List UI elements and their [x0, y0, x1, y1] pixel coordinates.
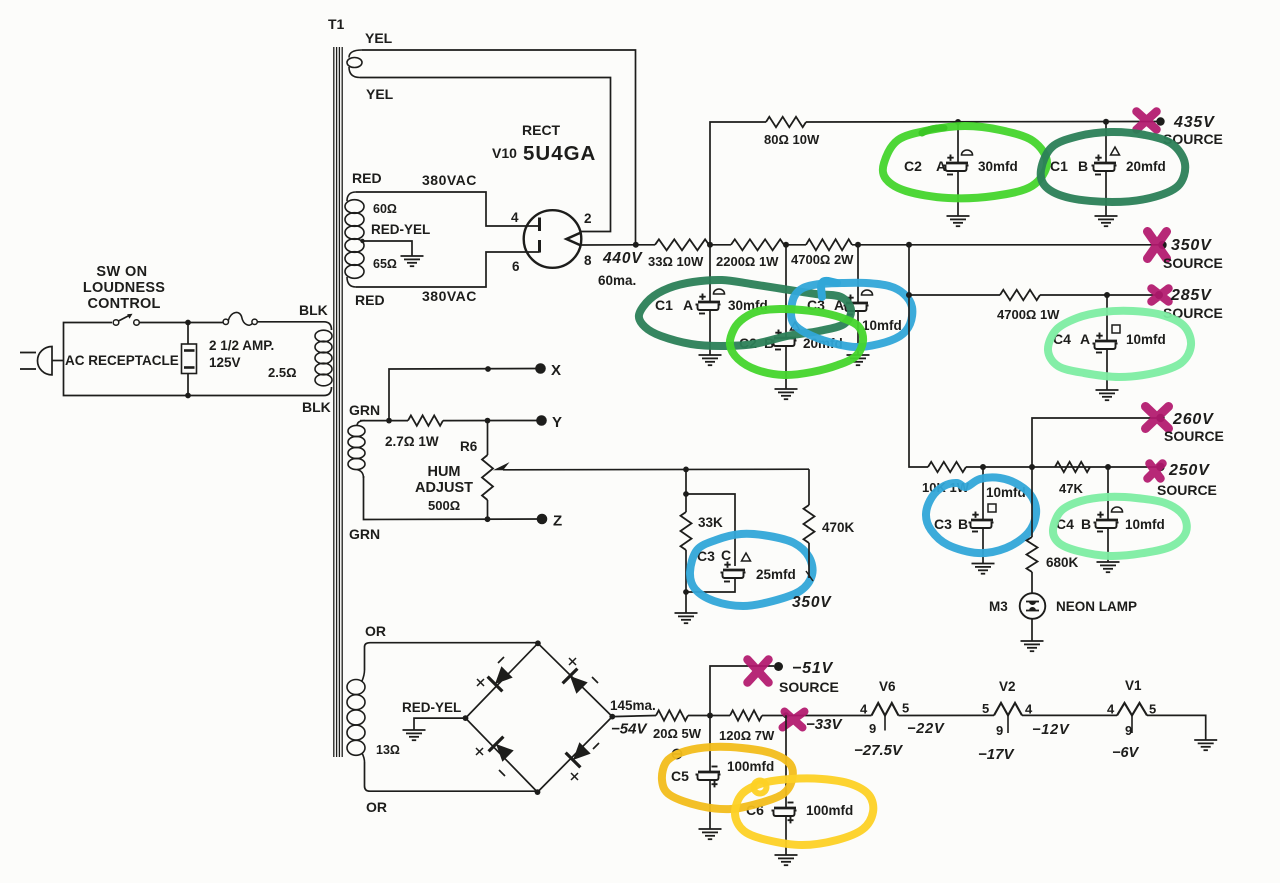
- ground below C2B: [775, 389, 798, 399]
- node: GRN junction: [386, 418, 392, 424]
- node: C4A junction: [1104, 292, 1110, 298]
- svg-text:C2: C2: [904, 158, 922, 174]
- resistor 33K: [681, 512, 692, 550]
- node: X line junction: [485, 366, 491, 372]
- ground below C5: [699, 829, 722, 839]
- node: C4B junction: [1105, 464, 1111, 470]
- tube heater V1: [1117, 703, 1147, 716]
- annotation bright-green circle around C2B: [730, 309, 863, 375]
- annotation yellow circle around C6: [735, 778, 873, 845]
- node: receptacle top junction: [185, 320, 191, 326]
- winding YEL (rectifier filament): [349, 50, 362, 58]
- svg-text:M3: M3: [989, 599, 1008, 614]
- 260V source terminal: [1156, 414, 1164, 422]
- svg-text:4: 4: [511, 210, 519, 225]
- svg-text:RED: RED: [355, 292, 385, 308]
- svg-text:−27.5V: −27.5V: [854, 742, 904, 759]
- svg-text:RECT: RECT: [522, 122, 561, 138]
- svg-text:LOUDNESS: LOUDNESS: [83, 280, 165, 296]
- svg-text:C1: C1: [655, 297, 673, 313]
- node: C6 junction: [783, 712, 789, 718]
- svg-text:30mfd: 30mfd: [978, 159, 1018, 174]
- node: bridge bottom vertex: [535, 789, 541, 795]
- capacitor C3 section A 10mfd: [857, 245, 859, 303]
- ground below C4B: [1097, 562, 1120, 572]
- capacitor C4 section B 10mfd: [1107, 467, 1109, 520]
- svg-text:33K: 33K: [698, 515, 723, 530]
- ground below 33K: [675, 613, 698, 623]
- svg-text:A: A: [936, 158, 946, 174]
- node: rail junction 285V branch: [906, 242, 912, 248]
- diode bridge bottom-right: [573, 742, 591, 760]
- tube rectifier V10 5U4GA: [524, 210, 582, 268]
- svg-text:5: 5: [902, 701, 909, 716]
- diode bridge top-left: [495, 666, 513, 684]
- svg-text:OR: OR: [366, 799, 387, 815]
- annotation mint circle around C4A: [1048, 311, 1191, 377]
- wire: tube pin 8 to 440V node: [581, 244, 637, 246]
- annotation mint circle around C4B: [1053, 497, 1187, 556]
- svg-text:4: 4: [1107, 702, 1115, 717]
- svg-text:4700Ω 1W: 4700Ω 1W: [997, 307, 1060, 322]
- svg-text:440V: 440V: [602, 250, 643, 267]
- svg-text:60ma.: 60ma.: [598, 273, 636, 288]
- node: C2A junction: [955, 119, 961, 125]
- wire: switch to junction: [139, 322, 223, 324]
- svg-text:500Ω: 500Ω: [428, 498, 460, 513]
- svg-text:SOURCE: SOURCE: [1157, 482, 1217, 498]
- svg-text:9: 9: [1125, 723, 1132, 738]
- wire: YEL top to 440V node: [362, 50, 636, 245]
- ground at bridge tap: [403, 730, 426, 740]
- node: bridge top vertex: [535, 640, 541, 646]
- svg-text:−54V: −54V: [611, 721, 648, 738]
- capacitor C3 section B 10mfd: [982, 467, 984, 520]
- svg-text:145ma.: 145ma.: [610, 698, 656, 713]
- wire: rail 786-806: [786, 244, 806, 246]
- wire: pot bottom to Z: [487, 500, 489, 520]
- svg-text:CONTROL: CONTROL: [87, 296, 160, 312]
- svg-text:C1: C1: [1050, 158, 1068, 174]
- svg-text:10mfd: 10mfd: [1125, 517, 1165, 532]
- svg-text:−51V: −51V: [792, 660, 834, 677]
- svg-text:RED-YEL: RED-YEL: [402, 700, 461, 715]
- annotation blue circle around C3C: [690, 534, 813, 606]
- wire: pot top lead: [487, 421, 489, 455]
- wire: down to 33K: [685, 469, 687, 512]
- resistor 10K 1W: [928, 462, 966, 472]
- svg-text:285V: 285V: [1170, 287, 1212, 304]
- svg-text:YEL: YEL: [366, 86, 394, 102]
- svg-text:−22V: −22V: [907, 721, 945, 737]
- annotation blue circle around C3A: [791, 283, 912, 347]
- ground below C2A: [947, 216, 970, 226]
- svg-text:ADJUST: ADJUST: [415, 480, 473, 496]
- resistor 470K: [808, 469, 810, 505]
- svg-text:C3: C3: [934, 516, 952, 532]
- wire: GRN bottom to Z line: [364, 476, 543, 520]
- resistor 680K: [1027, 537, 1038, 572]
- tube heater V2: [994, 703, 1022, 716]
- svg-text:2.7Ω 1W: 2.7Ω 1W: [385, 434, 439, 449]
- node: 33K/C3C top junction: [683, 491, 689, 497]
- wire: bridge left tap RED-YEL: [414, 718, 466, 730]
- 435V source terminal: [1156, 117, 1164, 125]
- bridge rectifier diamond: [466, 643, 613, 792]
- minus-terminal mark for C5: [672, 749, 681, 758]
- wire: 680K branch: [1031, 467, 1033, 537]
- svg-text:20mfd: 20mfd: [1126, 159, 1166, 174]
- ground below C4A: [1096, 390, 1119, 400]
- wire: rail to 350V source: [852, 244, 1162, 246]
- svg-text:BLK: BLK: [299, 302, 328, 318]
- svg-text:B: B: [1081, 516, 1091, 532]
- svg-text:250V: 250V: [1168, 462, 1210, 479]
- node: 260V/680K junction: [1029, 464, 1035, 470]
- svg-text:B: B: [1078, 158, 1088, 174]
- wiper arrow of R6: [493, 462, 510, 470]
- svg-text:−6V: −6V: [1112, 745, 1140, 761]
- node: C1B junction: [1103, 119, 1109, 125]
- annotation bright-green circle around C2A: [883, 126, 1047, 198]
- wire: 285V row right: [1040, 294, 1159, 296]
- capacitor C4 section A 10mfd: [1106, 295, 1108, 341]
- node: receptacle bottom junction: [185, 393, 191, 399]
- svg-text:V1: V1: [1125, 678, 1142, 693]
- svg-text:A: A: [1080, 331, 1090, 347]
- svg-text:AC RECEPTACLE: AC RECEPTACLE: [65, 353, 179, 368]
- AC plug: [38, 347, 53, 375]
- svg-text:125V: 125V: [209, 355, 241, 370]
- node: bridge left vertex: [463, 715, 469, 721]
- wire: B+ rail left: [636, 244, 655, 246]
- svg-text:2200Ω 1W: 2200Ω 1W: [716, 254, 779, 269]
- resistor 4700 ohm 1W: [1000, 290, 1040, 300]
- svg-text:T1: T1: [328, 16, 345, 32]
- diode bridge bottom-left: [496, 744, 514, 762]
- wire: rail 710-731: [710, 244, 731, 246]
- node: rail junction C1A/80ohm riser: [707, 242, 713, 248]
- svg-text:5U4GA: 5U4GA: [523, 142, 596, 165]
- resistor 20 ohm 5W: [656, 710, 688, 720]
- svg-text:C5: C5: [671, 768, 689, 784]
- resistor 33 ohm 10W: [655, 239, 709, 250]
- node: Z junction: [485, 516, 491, 522]
- svg-text:2.5Ω: 2.5Ω: [268, 365, 297, 380]
- capacitor C5 100mfd: [709, 716, 711, 773]
- svg-text:X: X: [551, 362, 561, 379]
- ground below neon lamp: [1021, 641, 1044, 651]
- winding RED high-voltage secondary: [345, 200, 364, 279]
- svg-text:65Ω: 65Ω: [373, 257, 397, 271]
- resistor 80 ohm 10W: [766, 117, 806, 127]
- node: 440V rectifier output: [633, 242, 639, 248]
- svg-text:OR: OR: [365, 623, 386, 639]
- svg-text:HUM: HUM: [427, 464, 460, 480]
- svg-text:380VAC: 380VAC: [422, 288, 477, 304]
- wire: fuse to primary: [257, 322, 331, 330]
- svg-text:Y: Y: [552, 414, 562, 431]
- node: C5 junction: [707, 713, 713, 719]
- node: rail junction C2B: [783, 242, 789, 248]
- ground at heater string end: [1194, 740, 1217, 750]
- wire: RED bottom 380VAC: [356, 252, 540, 287]
- svg-text:33Ω 10W: 33Ω 10W: [648, 254, 704, 269]
- node: 285V row start: [906, 292, 912, 298]
- wire: receptacle branch: [187, 323, 189, 345]
- wire: bridge output to 20 ohm: [612, 716, 656, 717]
- svg-text:YEL: YEL: [365, 30, 393, 46]
- svg-text:RED: RED: [352, 170, 382, 186]
- terminal X: [535, 363, 546, 374]
- terminal Z: [537, 514, 548, 525]
- svg-text:2: 2: [584, 211, 592, 226]
- svg-text:2 1/2 AMP.: 2 1/2 AMP.: [209, 338, 274, 353]
- -51V terminal dot: [774, 662, 783, 671]
- capacitor C1 section B 20mfd: [1105, 122, 1107, 163]
- wire: RED top 380VAC: [356, 192, 540, 226]
- svg-text:4700Ω 2W: 4700Ω 2W: [791, 252, 854, 267]
- svg-text:10mfd: 10mfd: [862, 318, 902, 333]
- terminal Y: [536, 415, 547, 426]
- node: wiper-33K junction: [683, 467, 689, 473]
- svg-text:−17V: −17V: [978, 746, 1015, 763]
- svg-text:GRN: GRN: [349, 402, 380, 418]
- svg-text:47K: 47K: [1059, 481, 1083, 496]
- svg-text:100mfd: 100mfd: [727, 759, 774, 774]
- wire: V1 to ground: [1147, 715, 1206, 740]
- svg-text:RED-YEL: RED-YEL: [371, 222, 430, 237]
- annotation dark-green circle around C1A: [639, 280, 851, 346]
- wire: V6 to V2: [899, 714, 995, 716]
- node: Y line junction: [485, 418, 491, 424]
- svg-text:13Ω: 13Ω: [376, 743, 400, 757]
- svg-text:Z: Z: [553, 513, 562, 530]
- capacitor C3 section C 25mfd: [721, 562, 746, 582]
- svg-text:6: 6: [512, 259, 520, 274]
- interlock receptacle box: [182, 344, 197, 374]
- capacitor C1 section A 30mfd: [709, 245, 711, 302]
- svg-text:350V: 350V: [792, 594, 832, 611]
- wire: C3C top branch: [686, 494, 735, 566]
- svg-text:V2: V2: [999, 679, 1016, 694]
- svg-text:60Ω: 60Ω: [373, 202, 397, 216]
- wire: R6 wiper to divider: [503, 468, 809, 471]
- wire: 260V branch: [1032, 418, 1160, 467]
- node: 33K/C3C bottom junction: [683, 589, 689, 595]
- node: bridge right vertex: [609, 714, 615, 720]
- svg-text:4: 4: [860, 702, 868, 717]
- annotation blue circle around C3B: [926, 477, 1036, 553]
- svg-text:470K: 470K: [822, 520, 855, 535]
- svg-text:4: 4: [1025, 702, 1033, 717]
- capacitor C6 100mfd: [785, 715, 787, 808]
- svg-text:260V: 260V: [1172, 411, 1214, 428]
- capacitor C2 section A 30mfd: [957, 122, 959, 163]
- svg-text:NEON LAMP: NEON LAMP: [1056, 599, 1137, 614]
- svg-text:SOURCE: SOURCE: [1164, 428, 1224, 444]
- wire: 250V row: [966, 466, 1159, 468]
- wire: riser to X line: [389, 369, 540, 421]
- wire: OR bottom to bridge: [365, 762, 538, 791]
- wire: 285V row left: [909, 294, 1000, 296]
- resistor 2200 ohm 1W: [731, 239, 784, 250]
- ground below C1A: [699, 355, 722, 365]
- capacitor C2 section B 20mfd: [785, 245, 787, 338]
- -51V source branch: [710, 666, 774, 716]
- svg-text:B: B: [958, 516, 968, 532]
- svg-text:5: 5: [982, 701, 989, 716]
- wire: GRN top to X/Y network: [360, 420, 408, 422]
- 285V source terminal: [1155, 291, 1163, 299]
- svg-text:350V: 350V: [1171, 237, 1212, 254]
- winding GRN 6.3V heater: [348, 425, 365, 469]
- svg-text:10mfd: 10mfd: [1126, 332, 1166, 347]
- svg-text:GRN: GRN: [349, 526, 380, 542]
- tube heater V6: [872, 703, 899, 716]
- wire: 680K to lamp: [1031, 572, 1033, 593]
- 250V source terminal: [1156, 463, 1164, 471]
- wire: AC loop left/top/bottom: [64, 323, 113, 361]
- svg-text:9: 9: [869, 721, 876, 736]
- svg-text:−33V: −33V: [806, 716, 843, 733]
- ground below C3A: [847, 355, 870, 365]
- wire: 470K to 350V: [808, 543, 810, 578]
- svg-text:V6: V6: [879, 679, 896, 694]
- wire: rail 688-730: [688, 715, 730, 717]
- resistor 120 ohm 7W: [730, 710, 762, 720]
- svg-text:SOURCE: SOURCE: [779, 679, 839, 695]
- svg-text:−12V: −12V: [1032, 722, 1070, 738]
- 350V source terminal: [1158, 241, 1166, 249]
- ground at HV center tap: [401, 256, 424, 266]
- resistor 4700 ohm 2W: [806, 239, 852, 250]
- wire: bottom AC to primary: [186, 387, 332, 396]
- wire: riser to 250V row: [909, 295, 928, 467]
- wire: center tap to ground: [360, 239, 364, 243]
- neon lamp M3: [1020, 593, 1046, 619]
- potentiometer R6 hum adjust 500 ohm: [482, 455, 493, 500]
- fuse 2 1/2 amp: [223, 319, 228, 324]
- svg-text:100mfd: 100mfd: [806, 803, 853, 818]
- svg-text:680K: 680K: [1046, 555, 1079, 570]
- svg-text:SOURCE: SOURCE: [1163, 255, 1223, 271]
- svg-text:380VAC: 380VAC: [422, 172, 477, 188]
- svg-text:5: 5: [1149, 702, 1156, 717]
- diode bridge top-right: [570, 676, 588, 694]
- svg-text:C: C: [721, 547, 731, 563]
- svg-text:V10: V10: [492, 145, 517, 161]
- svg-text:80Ω 10W: 80Ω 10W: [764, 132, 820, 147]
- wire: OR top to bridge: [365, 643, 539, 670]
- resistor 2.7 ohm 1W: [408, 415, 443, 425]
- ground below C1B: [1095, 216, 1118, 226]
- svg-text:A: A: [683, 297, 693, 313]
- svg-text:120Ω 7W: 120Ω 7W: [719, 728, 775, 743]
- wire: V2 to V1: [1022, 714, 1117, 716]
- wire: plug to AC loop: [52, 360, 64, 362]
- svg-text:435V: 435V: [1173, 114, 1215, 131]
- winding OR bias secondary: [347, 680, 365, 756]
- wire: lamp to ground: [1031, 619, 1033, 641]
- wire: 435V row: [806, 121, 1160, 124]
- wire: C3C bottom: [686, 578, 735, 592]
- -33V x mark: [783, 712, 805, 728]
- switch SW on loudness control: [113, 320, 119, 326]
- wire: riser 350V rail to 285V row: [908, 245, 910, 295]
- svg-text:8: 8: [584, 253, 592, 268]
- wire: rail 762-871: [762, 715, 872, 717]
- wire: 33K to bottom junction: [685, 550, 687, 613]
- node: C3B junction: [980, 464, 986, 470]
- svg-text:BLK: BLK: [302, 399, 331, 415]
- winding BLK primary: [315, 330, 332, 386]
- node: rail junction C3A: [855, 242, 861, 248]
- svg-text:25mfd: 25mfd: [756, 567, 796, 582]
- svg-text:SW ON: SW ON: [96, 264, 147, 280]
- svg-text:9: 9: [996, 723, 1003, 738]
- transformer T1 core: [334, 47, 342, 757]
- annotation yellow circle around C5: [662, 747, 793, 809]
- wire: YEL bottom to tube pin 2: [360, 78, 611, 232]
- wire: riser to 80 ohm row: [710, 122, 766, 245]
- svg-text:R6: R6: [460, 439, 478, 454]
- annotation dark-green circle around C1B: [1041, 132, 1186, 202]
- svg-text:20Ω 5W: 20Ω 5W: [653, 726, 702, 741]
- ground below C6: [775, 855, 798, 865]
- wire: 2.7 ohm to Y terminal: [443, 420, 541, 422]
- ground below C3B: [972, 564, 995, 574]
- resistor 47K: [1055, 462, 1090, 472]
